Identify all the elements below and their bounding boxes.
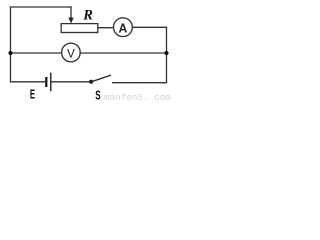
svg-text:manfen5. com: manfen5. com xyxy=(104,92,171,102)
svg-text:R: R xyxy=(82,8,93,24)
svg-text:S: S xyxy=(95,87,101,102)
wire: ammeter to top-right corner xyxy=(132,26,167,28)
wire: right vertical side xyxy=(166,27,168,83)
wire: slider drop with arrow onto rheostat xyxy=(68,6,73,23)
node: junction dot right xyxy=(164,51,168,55)
battery E: short thick negative plate xyxy=(45,77,47,87)
svg-text:V: V xyxy=(67,46,75,60)
battery E: long thin positive plate xyxy=(50,73,52,92)
wire: battery to switch pivot xyxy=(51,81,90,83)
node: junction dot left xyxy=(8,51,12,55)
wire: voltmeter branch left xyxy=(11,52,62,54)
voltmeter U: meter V xyxy=(62,43,81,62)
resistor R (rheostat body) xyxy=(61,24,98,33)
ammeter U: meter A xyxy=(114,18,133,37)
wire: rheostat to ammeter xyxy=(98,27,114,29)
svg-text:A: A xyxy=(119,21,128,36)
wire: left vertical side xyxy=(10,6,12,82)
svg-text:E: E xyxy=(30,87,35,101)
switch S: pivot dot xyxy=(89,80,93,84)
wire: voltmeter branch right xyxy=(80,52,167,54)
switch S: open lever arm xyxy=(91,75,111,82)
wire: bottom left corner to battery xyxy=(10,81,45,83)
wire: switch fixed contact to bottom-right corner xyxy=(112,82,167,84)
wire: top horizontal from left corner to slider drop xyxy=(10,6,72,8)
